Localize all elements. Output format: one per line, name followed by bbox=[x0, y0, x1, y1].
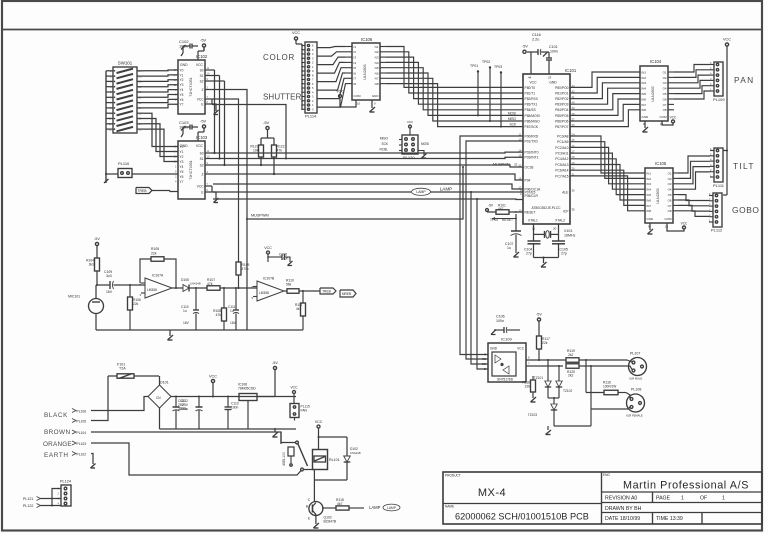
svg-text:R105: R105 bbox=[151, 247, 159, 251]
connector PL115 FAN bbox=[290, 404, 299, 418]
svg-text:IN1: IN1 bbox=[642, 70, 647, 74]
wires PL114 to IC106 inputs bbox=[317, 47, 345, 48]
uln driver IC104 ULN2803 bbox=[640, 66, 668, 121]
svg-text:ENG: ENG bbox=[603, 473, 610, 477]
svg-text:GND: GND bbox=[372, 94, 380, 98]
svg-text:3k3: 3k3 bbox=[89, 263, 94, 267]
svg-text:I2: I2 bbox=[354, 50, 357, 54]
connector PL120 isp header bbox=[402, 135, 418, 154]
svg-text:RESET: RESET bbox=[525, 210, 536, 214]
wire contact to lamp feed bbox=[303, 469, 314, 471]
svg-text:VCC: VCC bbox=[209, 375, 217, 379]
wire vcc to PL112 bbox=[723, 194, 727, 196]
net tag TREB at IC103 bbox=[136, 188, 152, 194]
svg-text:I3: I3 bbox=[354, 56, 357, 60]
svg-text:Y7: Y7 bbox=[180, 180, 184, 184]
svg-text:56k: 56k bbox=[286, 282, 292, 286]
mains tag PL102 bbox=[72, 452, 76, 456]
wire PL114 common vcc bus bbox=[301, 44, 303, 109]
svg-text:PL121: PL121 bbox=[23, 497, 33, 501]
wires XLR female to bus bbox=[591, 407, 630, 409]
wire net S2 long bbox=[212, 165, 523, 167]
svg-text:MOSI: MOSI bbox=[508, 112, 516, 116]
svg-text:LAMP: LAMP bbox=[369, 505, 381, 510]
svg-text:IN1: IN1 bbox=[647, 171, 652, 175]
svg-text:VCC: VCC bbox=[529, 81, 537, 85]
svg-text:ULN2803: ULN2803 bbox=[651, 86, 655, 101]
svg-text:X101: X101 bbox=[564, 229, 572, 233]
relay RL101 bbox=[313, 450, 328, 470]
wire select bus S1 bbox=[212, 75, 220, 77]
wire MCU power pins bbox=[530, 52, 532, 74]
ground at bottom rail bbox=[274, 428, 276, 430]
ground hook PL120 bbox=[418, 151, 424, 156]
resistor R118 22k bbox=[531, 380, 536, 392]
bridge bottom to rail bbox=[159, 408, 161, 429]
frame top rule bbox=[2, 29, 762, 31]
svg-text:PAN: PAN bbox=[734, 75, 755, 85]
svg-text:VCC: VCC bbox=[264, 246, 272, 250]
mains tag PL105 bbox=[72, 419, 76, 423]
svg-text:O2: O2 bbox=[668, 177, 672, 181]
svg-text:MIC101: MIC101 bbox=[68, 295, 80, 299]
svg-text:O8: O8 bbox=[663, 108, 667, 112]
svg-text:S2: S2 bbox=[200, 163, 204, 167]
svg-text:3u3: 3u3 bbox=[106, 274, 112, 278]
svg-text:P81/T1: P81/T1 bbox=[525, 91, 536, 95]
svg-text:P82/RX0: P82/RX0 bbox=[525, 97, 538, 101]
svg-text:PL104: PL104 bbox=[77, 431, 87, 435]
svg-text:1N4148: 1N4148 bbox=[190, 282, 201, 286]
ground at crystal bbox=[534, 257, 559, 259]
vertical link A to female bbox=[585, 360, 587, 393]
resistor R108 47k bbox=[223, 287, 225, 289]
svg-text:O3: O3 bbox=[663, 81, 667, 85]
svg-text:LAMP: LAMP bbox=[387, 506, 396, 510]
svg-text:MX-4: MX-4 bbox=[478, 487, 506, 499]
svg-text:N8: N8 bbox=[375, 82, 379, 86]
svg-text:1u: 1u bbox=[507, 246, 511, 250]
svg-text:Y0: Y0 bbox=[180, 145, 184, 149]
svg-text:S1: S1 bbox=[200, 157, 204, 161]
ground at IC106 bbox=[371, 100, 373, 108]
svg-text:MUSPWM: MUSPWM bbox=[251, 214, 269, 218]
svg-text:100R/1W: 100R/1W bbox=[603, 384, 616, 388]
op-amp IC107B LM358 bbox=[257, 281, 284, 301]
wires SW101 rows 1-8 to IC102 bbox=[144, 69, 178, 72]
svg-text:LAMP: LAMP bbox=[440, 187, 453, 192]
svg-text:PC6/A14: PC6/A14 bbox=[555, 169, 568, 173]
svg-text:COM: COM bbox=[660, 115, 668, 119]
svg-text:VCC: VCC bbox=[197, 97, 204, 101]
svg-text:VCC: VCC bbox=[517, 347, 524, 351]
mains tag PL104 bbox=[72, 430, 76, 434]
resistor R121 10k bbox=[260, 138, 262, 145]
svg-text:Y1: Y1 bbox=[180, 150, 184, 154]
svg-text:O4: O4 bbox=[668, 188, 672, 192]
uln driver IC105 ULN2803 bbox=[645, 168, 673, 223]
svg-text:Y6: Y6 bbox=[180, 175, 184, 179]
svg-text:DE: DE bbox=[482, 362, 486, 366]
transceiver IC109 SN75176D bbox=[488, 343, 526, 382]
capacitor C113 100n bbox=[227, 396, 229, 398]
wire relay top node bbox=[319, 436, 348, 438]
svg-text:P83/PO3: P83/PO3 bbox=[555, 103, 569, 107]
power VCC at IC104 com bbox=[662, 121, 673, 125]
svg-text:OF: OF bbox=[700, 496, 707, 502]
svg-text:IN2: IN2 bbox=[642, 76, 647, 80]
svg-text:TIME 13:39: TIME 13:39 bbox=[656, 516, 683, 522]
svg-text:ORANGE: ORANGE bbox=[43, 441, 72, 448]
svg-text:P01/TXD: P01/TXD bbox=[525, 139, 539, 143]
svg-text:16V: 16V bbox=[106, 290, 113, 294]
svg-text:I5: I5 bbox=[354, 66, 357, 70]
wire net to transceiver DE bbox=[471, 192, 488, 364]
svg-text:PL102: PL102 bbox=[77, 452, 87, 456]
svg-text:PAGE: PAGE bbox=[656, 496, 671, 502]
mains tag PL103 bbox=[72, 441, 76, 445]
svg-text:100n: 100n bbox=[550, 50, 558, 54]
svg-text:15: 15 bbox=[518, 154, 522, 158]
svg-text:C116: C116 bbox=[532, 33, 541, 37]
svg-text:TZ102: TZ102 bbox=[563, 389, 572, 393]
svg-text:1: 1 bbox=[722, 496, 725, 502]
svg-text:Y0: Y0 bbox=[180, 68, 184, 72]
svg-text:ALE: ALE bbox=[562, 191, 569, 195]
svg-text:O5: O5 bbox=[663, 92, 667, 96]
transceiver A/B outputs bbox=[526, 359, 566, 361]
svg-text:RCBL: RCBL bbox=[379, 148, 388, 152]
ground at R118 bbox=[532, 392, 534, 398]
svg-text:-5V: -5V bbox=[200, 119, 207, 124]
svg-text:PL103: PL103 bbox=[77, 442, 87, 446]
svg-text:GND: GND bbox=[490, 347, 498, 351]
svg-text:E: E bbox=[308, 517, 310, 521]
svg-text:IC109: IC109 bbox=[501, 337, 512, 342]
svg-text:PRODUCT: PRODUCT bbox=[445, 474, 461, 478]
svg-text:14: 14 bbox=[518, 149, 522, 153]
svg-text:IN4: IN4 bbox=[642, 87, 647, 91]
svg-text:47k: 47k bbox=[277, 149, 283, 153]
wires PL120 to MCU spi pins bbox=[399, 139, 402, 141]
net tag LAMP on wire to MCU bbox=[213, 191, 411, 193]
svg-text:N1: N1 bbox=[375, 45, 379, 49]
svg-text:22k: 22k bbox=[542, 341, 548, 345]
svg-text:-5V: -5V bbox=[272, 361, 278, 365]
resistor R120 2k2 bbox=[566, 364, 579, 369]
svg-text:Y3: Y3 bbox=[180, 160, 184, 164]
title block column dividers bbox=[652, 492, 654, 503]
svg-text:PL124: PL124 bbox=[60, 480, 71, 484]
svg-text:PC4/A12: PC4/A12 bbox=[555, 157, 568, 161]
title block right row dividers bbox=[602, 491, 763, 493]
svg-text:78M05CDD: 78M05CDD bbox=[238, 387, 256, 391]
regulator ground pin bbox=[247, 401, 249, 430]
svg-text:Y3: Y3 bbox=[180, 83, 184, 87]
svg-text:BROWN: BROWN bbox=[44, 429, 71, 436]
svg-text:XLR FEMALE: XLR FEMALE bbox=[626, 414, 643, 418]
ground at Q102 emitter bbox=[315, 516, 317, 525]
svg-text:MOSI: MOSI bbox=[421, 142, 429, 146]
wire bundle MCU portC to IC105 bbox=[570, 136, 645, 173]
svg-text:C101: C101 bbox=[549, 45, 558, 49]
svg-text:4SEL100: 4SEL100 bbox=[282, 452, 286, 466]
resistor R122 47k bbox=[273, 138, 275, 145]
svg-text:O6: O6 bbox=[668, 198, 672, 202]
resistor R111 4k7 bbox=[302, 290, 304, 292]
svg-text:62000062 SCH/01001510B PCB: 62000062 SCH/01001510B PCB bbox=[455, 512, 589, 522]
svg-text:P03/INT1: P03/INT1 bbox=[525, 156, 539, 160]
svg-text:CN: CN bbox=[156, 396, 161, 400]
wire PL104 brown to relay bbox=[91, 432, 281, 444]
svg-text:BC847B: BC847B bbox=[324, 520, 337, 524]
analog mux IC102 74HCT4051 bbox=[178, 60, 205, 114]
svg-text:AT80C552JS.PLCC: AT80C552JS.PLCC bbox=[531, 206, 561, 210]
svg-text:R: R bbox=[484, 353, 486, 357]
svg-text:PC2/A10: PC2/A10 bbox=[555, 146, 568, 150]
svg-text:VCC: VCC bbox=[723, 38, 731, 42]
svg-text:MUSPWM: MUSPWM bbox=[493, 163, 510, 167]
svg-text:GOBO: GOBO bbox=[732, 205, 760, 215]
svg-text:COM: COM bbox=[665, 217, 673, 221]
svg-text:2k2: 2k2 bbox=[568, 374, 573, 378]
svg-text:VCC: VCC bbox=[670, 116, 677, 120]
rs485 shield bus bottom bbox=[554, 425, 591, 427]
svg-text:E: E bbox=[201, 102, 203, 106]
svg-text:TILT: TILT bbox=[733, 161, 755, 171]
svg-text:D: D bbox=[484, 367, 486, 371]
svg-text:20: 20 bbox=[553, 227, 557, 231]
svg-text:IC107B: IC107B bbox=[263, 277, 275, 281]
svg-text:NAME: NAME bbox=[445, 505, 454, 509]
svg-text:PC3/A11: PC3/A11 bbox=[556, 152, 569, 156]
svg-text:P87/SCK: P87/SCK bbox=[525, 125, 539, 129]
wire bundle MCU port1 to IC104 bbox=[570, 72, 640, 87]
svg-text:PL110: PL110 bbox=[118, 161, 130, 166]
svg-text:LM358: LM358 bbox=[259, 291, 269, 295]
svg-text:IC101: IC101 bbox=[565, 68, 577, 73]
svg-text:P82/PO2: P82/PO2 bbox=[555, 97, 569, 101]
svg-text:100n: 100n bbox=[231, 406, 239, 410]
wires SW101 rows 9-12 to IC103 bbox=[144, 113, 178, 146]
connector PL114 bbox=[305, 42, 317, 113]
svg-text:LAMP: LAMP bbox=[416, 190, 426, 194]
svg-text:VCC: VCC bbox=[292, 31, 300, 35]
svg-text:IN3: IN3 bbox=[642, 81, 647, 85]
ground at IC104 bbox=[644, 121, 646, 128]
svg-text:32: 32 bbox=[514, 163, 518, 167]
svg-text:1u: 1u bbox=[183, 309, 187, 313]
svg-text:P87/PO7: P87/PO7 bbox=[555, 125, 569, 129]
svg-text:P05/CLR: P05/CLR bbox=[525, 194, 539, 198]
svg-text:IN6: IN6 bbox=[647, 198, 652, 202]
svg-text:SCK: SCK bbox=[381, 142, 388, 146]
svg-text:16: 16 bbox=[518, 176, 522, 180]
svg-text:I8: I8 bbox=[354, 82, 357, 86]
svg-text:RL101: RL101 bbox=[329, 458, 340, 462]
svg-text:IN2: IN2 bbox=[647, 177, 652, 181]
svg-text:N5: N5 bbox=[375, 66, 379, 70]
wire brown feed to fuse bbox=[91, 376, 108, 421]
svg-text:Y1: Y1 bbox=[180, 73, 184, 77]
svg-text:IN6: IN6 bbox=[642, 97, 647, 101]
title block left product/name divider bbox=[443, 503, 602, 505]
svg-text:S0: S0 bbox=[200, 68, 204, 72]
wires IC105 outputs to PL111 bbox=[678, 156, 710, 173]
wires PL121/PL122 to PL124 bbox=[41, 498, 62, 500]
wire C102 to IC102 vcc bbox=[203, 47, 205, 51]
svg-text:O3: O3 bbox=[668, 182, 672, 186]
svg-text:P86/MISO: P86/MISO bbox=[525, 119, 541, 123]
wire IC102 E ground hook bbox=[211, 99, 213, 104]
svg-text:-5V: -5V bbox=[94, 237, 100, 241]
svg-text:O6: O6 bbox=[663, 97, 667, 101]
svg-text:C106: C106 bbox=[496, 315, 505, 319]
dip switch SW101 bbox=[113, 67, 137, 133]
svg-text:P84/PO4: P84/PO4 bbox=[555, 108, 569, 112]
svg-text:470k: 470k bbox=[242, 267, 250, 271]
svg-text:33: 33 bbox=[572, 189, 576, 193]
wire line B to XLR bbox=[586, 365, 627, 367]
svg-text:P86/PO6: P86/PO6 bbox=[555, 119, 569, 123]
svg-text:1: 1 bbox=[681, 496, 684, 502]
svg-text:16V: 16V bbox=[183, 321, 190, 325]
svg-text:P80/PO0: P80/PO0 bbox=[555, 86, 569, 90]
svg-text:COLOR: COLOR bbox=[263, 53, 295, 62]
relay contact switch bbox=[296, 441, 299, 444]
svg-text:16MHz: 16MHz bbox=[564, 234, 576, 238]
svg-text:N4: N4 bbox=[375, 61, 379, 65]
analog mux IC103 74HCT4051 bbox=[178, 141, 205, 199]
wire bundle IC106 outputs to MCU port1 bbox=[386, 47, 523, 88]
svg-text:74HCT4051: 74HCT4051 bbox=[189, 160, 193, 179]
svg-text:Y2: Y2 bbox=[180, 155, 184, 159]
net tag TREB audio out bbox=[320, 288, 336, 294]
crystal X101 16MHz bbox=[533, 224, 535, 241]
svg-text:Y4: Y4 bbox=[180, 88, 184, 92]
svg-text:PL112: PL112 bbox=[711, 228, 723, 233]
wire switch common bus bbox=[105, 71, 107, 183]
svg-text:2.2u: 2.2u bbox=[532, 38, 539, 42]
svg-text:P04: P04 bbox=[525, 178, 531, 182]
svg-text:MREB: MREB bbox=[342, 292, 351, 296]
svg-text:PL106: PL106 bbox=[77, 409, 87, 413]
svg-text:PL120: PL120 bbox=[403, 155, 415, 160]
svg-text:PL111: PL111 bbox=[713, 183, 725, 188]
wire IC102 S1 branch down to audio R109 bbox=[212, 99, 239, 262]
svg-text:SCK: SCK bbox=[509, 123, 516, 127]
svg-text:XTAL2: XTAL2 bbox=[555, 219, 565, 223]
svg-text:O4: O4 bbox=[663, 87, 667, 91]
svg-text:VCC: VCC bbox=[336, 90, 344, 94]
svg-text:10k: 10k bbox=[253, 149, 259, 153]
svg-text:VCC: VCC bbox=[197, 184, 204, 188]
svg-text:P83/TX1: P83/TX1 bbox=[525, 103, 538, 107]
svg-text:N2: N2 bbox=[375, 50, 379, 54]
op-amp IC107A LM358 bbox=[145, 278, 172, 298]
svg-text:SW101: SW101 bbox=[118, 61, 133, 66]
wires IC105 outputs to PL112 bbox=[678, 195, 709, 201]
svg-text:REVISION A0: REVISION A0 bbox=[605, 496, 637, 502]
svg-text:ICP: ICP bbox=[563, 210, 569, 214]
svg-text:IN7: IN7 bbox=[647, 204, 652, 208]
svg-text:4k7: 4k7 bbox=[337, 502, 343, 506]
mains tag PL106 bbox=[72, 409, 76, 413]
svg-text:PL122: PL122 bbox=[23, 504, 33, 508]
svg-text:PL108: PL108 bbox=[631, 388, 641, 392]
svg-text:VCC: VCC bbox=[407, 120, 414, 124]
ground at IC105 bbox=[649, 223, 651, 230]
capacitor C117 2200u 25V bbox=[175, 396, 177, 398]
svg-text:PL107: PL107 bbox=[630, 352, 640, 356]
ground at audio rail bbox=[169, 330, 171, 336]
svg-text:IN5: IN5 bbox=[642, 92, 647, 96]
svg-text:BLACK: BLACK bbox=[44, 412, 68, 419]
wire IC102 E line to select net bbox=[212, 105, 286, 159]
svg-text:S1: S1 bbox=[200, 74, 204, 78]
svg-text:-5V: -5V bbox=[200, 38, 207, 43]
svg-text:IN8: IN8 bbox=[642, 108, 647, 112]
svg-text:P00/RXD: P00/RXD bbox=[525, 134, 539, 138]
svg-text:I4: I4 bbox=[354, 61, 357, 65]
svg-text:P85/MOSI: P85/MOSI bbox=[525, 114, 540, 118]
svg-text:4k7: 4k7 bbox=[296, 307, 301, 311]
svg-text:22k: 22k bbox=[525, 384, 531, 388]
wire brown into contact bbox=[281, 432, 296, 443]
wire PL103 orange to relay contact bbox=[91, 443, 282, 475]
svg-text:Y7: Y7 bbox=[180, 103, 184, 107]
capacitor C105 27p bbox=[552, 240, 565, 242]
wire select bus S2 bbox=[212, 80, 225, 82]
svg-text:RE: RE bbox=[482, 357, 486, 361]
svg-text:P80/T0: P80/T0 bbox=[525, 86, 536, 90]
vertical link B to female bbox=[590, 366, 592, 409]
svg-text:-5V: -5V bbox=[522, 45, 528, 49]
svg-text:Y2: Y2 bbox=[180, 78, 184, 82]
svg-text:I1: I1 bbox=[354, 45, 357, 49]
svg-text:VCC: VCC bbox=[290, 386, 298, 390]
svg-text:IC106: IC106 bbox=[361, 37, 373, 42]
svg-text:VCC: VCC bbox=[196, 63, 204, 67]
capacitor C112 2200u 25V bbox=[198, 396, 200, 398]
connector PL109 bbox=[714, 62, 723, 96]
svg-text:PC7/A15: PC7/A15 bbox=[555, 174, 568, 178]
svg-text:GND: GND bbox=[642, 115, 650, 119]
wire IC102 Z output down to audio bbox=[212, 90, 247, 331]
svg-text:GND: GND bbox=[180, 63, 188, 67]
wire black to bridge left bbox=[91, 397, 148, 411]
svg-text:IC107A: IC107A bbox=[152, 274, 164, 278]
wire long net to MCU P06 bbox=[213, 184, 523, 189]
svg-text:VCC: VCC bbox=[196, 144, 204, 148]
svg-text:IN5: IN5 bbox=[647, 193, 652, 197]
power at PL120 bbox=[409, 128, 411, 135]
svg-text:PC5/A13: PC5/A13 bbox=[555, 163, 568, 167]
svg-text:LM358: LM358 bbox=[147, 288, 157, 292]
capacitor C104 27p bbox=[528, 240, 541, 242]
connector PL112 bbox=[713, 193, 722, 227]
wire orange into contact bbox=[282, 471, 301, 475]
svg-text:O1: O1 bbox=[668, 171, 672, 175]
wire net S0 to MCU INT0 bbox=[212, 151, 523, 154]
svg-text:FAN: FAN bbox=[301, 409, 308, 413]
wire vcc pull to line A bbox=[538, 359, 540, 361]
wire MCU RXD to transceiver bbox=[460, 136, 523, 355]
svg-text:E: E bbox=[201, 190, 203, 194]
svg-text:Y6: Y6 bbox=[180, 98, 184, 102]
connector PL111 bbox=[714, 148, 723, 182]
svg-text:COM: COM bbox=[354, 94, 362, 98]
